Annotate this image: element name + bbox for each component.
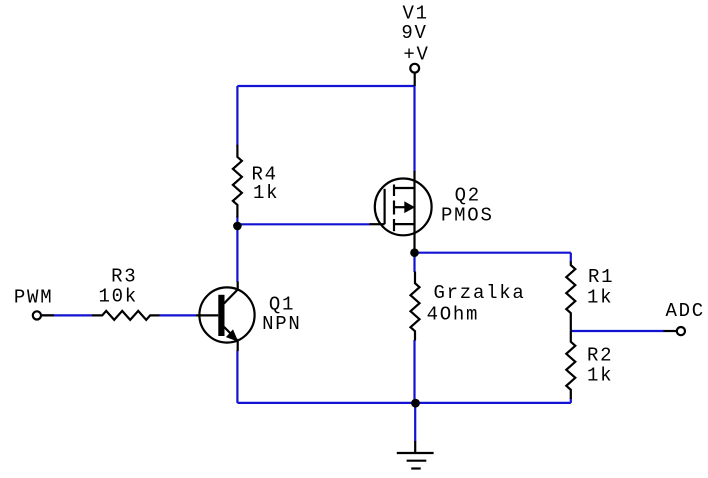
power terminal +V lead xyxy=(414,73,416,87)
transistor Q1 body circle xyxy=(199,287,254,342)
svg-text:V1: V1 xyxy=(403,2,429,24)
transistor Q1 base lead xyxy=(196,314,218,316)
svg-text:Q1: Q1 xyxy=(269,293,295,315)
svg-text:10k: 10k xyxy=(99,286,138,308)
svg-text:4Ohm: 4Ohm xyxy=(427,304,480,326)
terminal ADC circle xyxy=(677,327,685,335)
svg-text:1k: 1k xyxy=(253,182,279,204)
svg-text:R2: R2 xyxy=(587,345,613,367)
wire Grzalka bottom to bottom rail xyxy=(413,340,415,403)
transistor Q2 gate lead xyxy=(370,223,385,225)
svg-text:1k: 1k xyxy=(587,365,613,387)
ground symbol stem xyxy=(414,441,416,453)
wire top rail xyxy=(237,85,414,87)
resistor R1 xyxy=(566,261,575,330)
ground symbol bar 3 xyxy=(411,467,421,469)
ground symbol bar 1 xyxy=(397,452,434,454)
wire ground stem xyxy=(414,403,416,442)
transistor Q2 channel segment top xyxy=(393,185,395,197)
svg-text:9V: 9V xyxy=(401,22,427,44)
svg-text:Q2: Q2 xyxy=(455,184,481,206)
transistor Q2 bulk arrow head xyxy=(404,201,415,213)
svg-text:ADC: ADC xyxy=(666,300,705,322)
terminal PWM lead xyxy=(42,314,54,316)
transistor Q2 channel segment middle xyxy=(393,201,395,215)
transistor Q1 base bar xyxy=(218,295,224,336)
junction dot at bottom rail / ground xyxy=(411,399,420,408)
transistor Q2 bottom bar (drain connection) xyxy=(394,223,415,225)
wire left vertical mid (R4 to Q1 collector) xyxy=(236,216,238,282)
transistor Q2 drain-source vertical xyxy=(413,171,415,253)
ground symbol bar 2 xyxy=(407,460,427,462)
svg-text:1k: 1k xyxy=(587,287,613,309)
resistor R2 xyxy=(566,331,575,399)
svg-text:PWM: PWM xyxy=(14,287,53,309)
wire Grzalka top lead xyxy=(413,253,415,272)
terminal PWM circle xyxy=(33,311,41,319)
transistor Q2 gate line xyxy=(384,189,386,224)
resistor Grzalka (heater) xyxy=(411,272,420,341)
wire bottom rail xyxy=(237,402,570,404)
junction dot at R4 bottom / gate net xyxy=(233,222,242,231)
terminal ADC lead xyxy=(664,330,677,332)
wire Q1 emitter to bottom rail xyxy=(236,351,238,403)
svg-text:Grzalka: Grzalka xyxy=(434,282,526,304)
resistor R3 xyxy=(92,311,159,320)
wire R3 to Q1 base xyxy=(159,314,196,316)
wire gate net (node to Q2 gate) xyxy=(237,223,370,225)
wire PWM to R3 xyxy=(42,314,92,316)
wire ADC net xyxy=(571,330,664,332)
wire Q2 drain top (top rail down to Q2) xyxy=(413,86,415,172)
transistor Q2 bulk arrow line xyxy=(394,206,406,208)
svg-text:NPN: NPN xyxy=(262,313,301,335)
resistor R4 xyxy=(233,145,242,218)
transistor Q1 collector lead xyxy=(224,282,238,304)
svg-text:R3: R3 xyxy=(111,265,137,287)
wire right vertical upper (to R1) xyxy=(570,253,572,262)
wire right vertical lower (R2 to bottom rail) xyxy=(570,398,572,403)
svg-text:PMOS: PMOS xyxy=(441,205,494,227)
transistor Q1 emitter arrow xyxy=(226,329,238,341)
power terminal +V circle xyxy=(410,64,419,73)
wire left vertical upper (top rail to R4) xyxy=(236,86,238,146)
transistor Q2 top bar (source connection) xyxy=(394,187,415,189)
transistor Q2 channel segment bottom xyxy=(393,219,395,231)
svg-text:+V: +V xyxy=(403,43,429,65)
junction dot at Q2 drain node xyxy=(410,248,419,257)
svg-text:R1: R1 xyxy=(588,266,614,288)
transistor Q1 emitter lead xyxy=(224,327,238,351)
transistor Q2 body circle xyxy=(375,179,432,236)
wire drain node to right vertical xyxy=(415,252,571,254)
